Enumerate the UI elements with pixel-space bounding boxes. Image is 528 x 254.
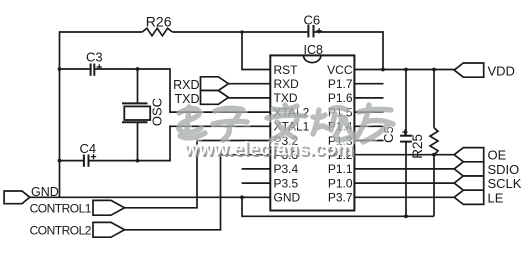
connector tag OE [454,148,484,162]
wire P1.5 stub [354,111,383,113]
connector tag LE [454,190,484,204]
junction dot GND row [240,195,244,199]
wire P3.7 to LE [354,196,454,198]
wire P3.5 stub [242,182,271,184]
wire C6 branch left [242,31,308,33]
connector tag RXD [201,77,229,91]
wire CONTROL1 to P3.2 [124,141,270,208]
svg-text:P3.5: P3.5 [274,176,299,190]
svg-text:VDD: VDD [488,64,515,79]
svg-text:CONTROL1: CONTROL1 [30,202,92,216]
svg-text:P1.6: P1.6 [328,91,353,105]
wire P1.4 stub [354,125,383,127]
svg-text:P1.7: P1.7 [328,77,353,91]
wire crystal top lead [137,69,139,103]
wire R25 vertical bottom [433,155,435,216]
junction dot crystal bottom [136,159,140,163]
svg-text:IC8: IC8 [304,43,324,57]
junction dot rail C5 [404,214,408,218]
watermark chinese characters glow [180,106,394,143]
crystal Y1 body [124,106,150,120]
wire P1.1 to SDIO [354,168,454,170]
wire CONTROL2 to P3.3 [124,155,270,230]
junction dot VCC C6 [381,68,385,72]
svg-text:P3.4: P3.4 [274,162,299,176]
plus mark C3 [97,64,102,69]
junction dot top rail RST [240,30,243,33]
wire P1.6 stub [354,97,383,99]
wire C5 vertical bottom [405,142,407,217]
svg-text:LE: LE [488,190,504,205]
resistor R26 [142,28,172,36]
wire P1.7 stub [354,83,383,85]
wire TXD [228,97,270,99]
wire R25 vertical top [433,70,435,128]
wire top rail left segment [60,32,143,161]
svg-text:P1.1: P1.1 [328,162,353,176]
svg-text:GND: GND [274,191,301,205]
junction dot OE R25 [432,153,436,157]
svg-text:C6: C6 [304,13,321,28]
svg-text:RST: RST [274,63,299,77]
svg-text:R26: R26 [146,13,172,29]
svg-text:C3: C3 [86,50,103,65]
wire VCC row [354,69,454,71]
svg-text:OSC: OSC [149,98,164,126]
plus mark C4 [91,154,96,159]
wire C4 row left [60,160,84,162]
wire P1.2 to OE [354,154,454,156]
wire P3.4 stub [242,168,271,170]
svg-text:GND: GND [31,185,59,199]
connector tag CONTROL1 [93,200,125,215]
wire RST vertical [242,32,270,70]
svg-text:SCLK: SCLK [488,176,522,191]
wire crystal bottom lead [137,122,139,160]
connector tag SCLK [454,176,484,190]
svg-text:RXD: RXD [173,78,199,92]
wire top rail right segment [172,31,242,33]
wire RXD [228,83,270,85]
wire C4 row to XTAL1 [89,126,271,160]
svg-text:RXD: RXD [274,77,300,91]
wire C6 branch right [314,32,384,70]
wire C3 row to XTAL2 [94,69,270,112]
connector tag GND [4,191,30,204]
wire P1.3 stub [354,140,383,142]
junction dot C4 left [58,159,62,163]
watermark chinese characters [179,105,393,142]
capacitor C3 [91,64,95,76]
wire GND row [30,196,271,198]
wire C3 row left [60,68,91,70]
plus mark C5 [402,129,407,134]
svg-text:SDIO: SDIO [488,162,520,177]
svg-text:P3.7: P3.7 [328,191,353,205]
connector tag SDIO [454,162,484,176]
junction dot VCC R25 [432,68,436,72]
capacitor C5 [400,136,412,142]
svg-text:TXD: TXD [175,92,200,106]
crystal Y1 plates [122,103,148,122]
junction dot crystal top [136,67,140,71]
connector tag CONTROL2 [93,222,125,237]
wire left vertical lower [59,161,61,198]
svg-text:R25: R25 [410,134,425,159]
IC8 body [270,55,354,210]
wire C5 vertical top [405,70,407,136]
wire bottom rail [242,197,434,216]
junction dot VCC C5 [404,68,408,72]
plus mark C6 [316,28,321,33]
svg-text:C4: C4 [80,141,97,156]
junction dot C3 left [58,67,62,71]
svg-text:P1.0: P1.0 [328,176,353,190]
svg-text:VCC: VCC [327,63,353,77]
capacitor C4 [84,155,89,167]
resistor R25 [430,128,438,155]
svg-text:www.elecfans.com: www.elecfans.com [183,139,353,160]
capacitor C6 [308,25,313,37]
wire P1.0 to SCLK [354,182,454,184]
connector tag TXD [201,91,229,105]
IC8 notch [304,55,321,62]
connector tag VDD [454,63,484,77]
svg-text:CONTROL2: CONTROL2 [30,224,92,238]
svg-text:OE: OE [488,148,507,163]
